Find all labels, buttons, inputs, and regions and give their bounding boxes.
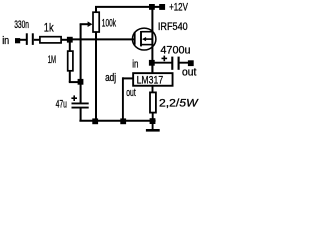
svg-text:IRF540: IRF540	[158, 21, 188, 33]
node D junction (source / C3 / LM317 in)	[149, 60, 155, 66]
IC U1 LM317	[133, 73, 172, 86]
svg-text:out: out	[182, 67, 196, 79]
transistor Q1 IRF540	[132, 21, 187, 50]
wire top rail	[95, 6, 161, 8]
wire LM317 adj pin	[123, 77, 133, 120]
resistor R1 1k	[40, 21, 61, 43]
wire gate line	[72, 38, 135, 40]
resistor R2 1M	[48, 42, 80, 82]
resistor R3 2,2/5W	[150, 92, 199, 119]
wire wiper vertical	[80, 24, 82, 79]
node A junction	[67, 37, 73, 43]
node C junction top rail	[149, 4, 155, 10]
wire R1 to node A	[61, 39, 68, 41]
wire C1 to R1	[34, 39, 40, 41]
terminal IN	[15, 38, 20, 43]
ground	[146, 121, 160, 130]
wire input to C1	[20, 39, 27, 41]
svg-text:LM317: LM317	[137, 74, 164, 86]
svg-text:in: in	[132, 59, 138, 71]
svg-text:+12V: +12V	[169, 1, 188, 13]
potentiometer P1 100k	[80, 7, 117, 121]
terminal OUT right	[182, 60, 196, 78]
svg-text:adj: adj	[105, 72, 116, 84]
svg-text:out: out	[126, 87, 135, 99]
wire bottom rail	[79, 120, 155, 122]
svg-text:1k: 1k	[44, 21, 55, 35]
wire C3 to out terminal	[180, 62, 189, 64]
node G junction (R3 / rail / ground)	[150, 118, 156, 124]
node B junction (1M / wiper / 47u)	[78, 79, 84, 85]
wire node D to C3	[155, 62, 172, 64]
capacitor C2 47u	[56, 84, 89, 121]
terminal +12V	[159, 1, 188, 13]
node E junction (pot bottom / rail)	[92, 118, 98, 124]
wire drain-source vertical	[151, 7, 153, 73]
svg-text:330n: 330n	[14, 19, 29, 31]
wire LM317 in pin	[151, 66, 153, 73]
node F junction (adj / rail)	[120, 118, 126, 124]
svg-text:4700u: 4700u	[160, 45, 190, 57]
capacitor C1 330n	[14, 19, 33, 45]
svg-text:2,2/5W: 2,2/5W	[159, 98, 199, 110]
svg-text:100k: 100k	[102, 18, 117, 30]
capacitor C3 4700u	[160, 45, 190, 70]
wire LM317 out pin	[152, 86, 154, 93]
svg-text:in: in	[2, 35, 9, 47]
svg-text:1M: 1M	[48, 54, 56, 66]
svg-text:47u: 47u	[56, 99, 67, 111]
